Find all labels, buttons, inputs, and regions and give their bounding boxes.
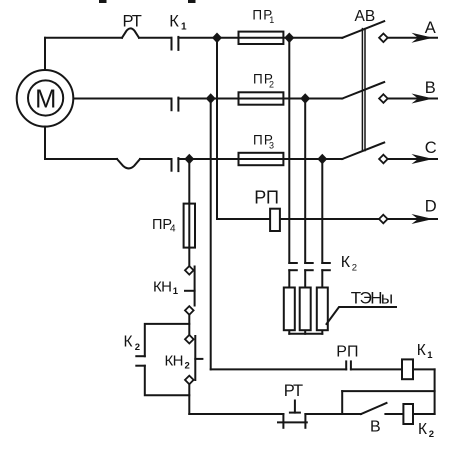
wire heater line3 lower lead <box>321 270 323 287</box>
push button KN1 <box>185 267 195 306</box>
junction phase3 net2 <box>317 154 327 165</box>
switch V blade <box>361 403 387 414</box>
wire D row to relay coil RP <box>217 218 270 220</box>
contact K2 heater line2 <box>305 263 313 270</box>
wire output C <box>388 158 437 160</box>
wire output D <box>388 218 438 220</box>
wire net from phase1 junction down to D row <box>216 38 218 219</box>
svg-text:2: 2 <box>185 360 190 371</box>
svg-text:КН: КН <box>165 352 183 369</box>
svg-text:К: К <box>169 12 179 30</box>
svg-text:КН: КН <box>153 279 171 296</box>
wire ladder line down from PR4 <box>188 159 190 204</box>
heating element TEN1 <box>284 288 295 331</box>
wire phase3 to K1 contact <box>140 158 172 160</box>
svg-text:1: 1 <box>427 350 433 361</box>
thermal contact RT <box>278 401 307 428</box>
wire right rail down <box>434 369 436 414</box>
wire K2 holding branch bottom <box>145 366 190 396</box>
svg-text:С: С <box>425 139 437 157</box>
svg-text:D: D <box>425 198 437 216</box>
wire net from phase2 junction down to RP row <box>210 99 212 370</box>
breaker AB blade phase3 <box>342 143 384 160</box>
wire heater line 2 down from phase2 <box>304 99 306 264</box>
junction phase2 net1 <box>206 93 216 104</box>
arrowhead C <box>412 154 434 164</box>
wire phase1 to RT heater <box>45 37 122 39</box>
page artifact top left <box>99 0 107 3</box>
svg-text:А: А <box>425 19 436 37</box>
svg-text:1: 1 <box>181 21 187 32</box>
svg-text:В: В <box>425 79 436 97</box>
wire RP contact to coil K1 <box>351 368 435 370</box>
svg-text:К: К <box>418 421 427 438</box>
junction phase1 net2 <box>284 33 294 44</box>
wire heater line 3 down from phase3 <box>321 159 323 263</box>
wire phase3 through fuse to breaker AB <box>239 158 343 160</box>
svg-text:К: К <box>124 334 133 351</box>
wire heater line2 lower lead <box>304 270 306 287</box>
wire switch V to coil K2 <box>385 413 403 415</box>
breaker AB blade phase2 <box>342 82 384 99</box>
arrowhead D <box>412 214 434 224</box>
thermal relay heater RT (phase 1 hump) <box>122 28 139 37</box>
svg-text:РТ: РТ <box>123 12 142 30</box>
wire output A <box>388 37 437 39</box>
svg-text:РТ: РТ <box>284 382 303 400</box>
svg-text:1: 1 <box>269 15 274 25</box>
wire D row relay to terminal <box>280 218 379 220</box>
fuse PR1 <box>239 32 284 44</box>
wire KN1 to KN2 <box>188 315 190 336</box>
svg-text:АВ: АВ <box>355 8 376 25</box>
wire phase1 contact to fuse PR1 <box>178 37 238 39</box>
svg-text:ТЭНы: ТЭНы <box>351 288 393 307</box>
wire phase1 through fuse to breaker AB <box>239 37 343 39</box>
svg-text:К: К <box>417 342 426 359</box>
fuse PR4 <box>184 204 195 248</box>
relay coil RP <box>270 209 280 231</box>
svg-text:РП: РП <box>254 187 278 207</box>
svg-text:РП: РП <box>336 344 358 361</box>
svg-text:1: 1 <box>173 286 179 297</box>
terminal KN2 bottom <box>185 376 194 385</box>
wire phase2 contact to fuse PR2 <box>178 98 238 100</box>
svg-text:К: К <box>341 254 351 271</box>
wire bypass branch <box>342 391 434 414</box>
arrowhead A <box>412 33 434 43</box>
contact RP <box>346 361 351 369</box>
contact K2 holding <box>136 356 145 366</box>
terminal A <box>379 34 388 43</box>
svg-text:3: 3 <box>269 141 274 151</box>
contact K2 heater line1 <box>289 263 297 270</box>
contact K1 phase3 <box>172 158 179 171</box>
wire phase3 to RT heater <box>45 158 117 160</box>
svg-text:В: В <box>370 419 381 436</box>
push button KN2 <box>195 336 202 380</box>
svg-text:2: 2 <box>135 342 140 353</box>
terminal D <box>379 215 388 224</box>
junction phase2 net2 <box>300 93 310 104</box>
wire RT contact to switch V <box>305 413 361 415</box>
wire phase2 through fuse to breaker AB <box>239 98 343 100</box>
terminal C <box>379 155 388 164</box>
page artifact top right <box>188 0 196 3</box>
wire PR4 to button KN1 <box>188 248 190 267</box>
junction phase1 net1 <box>212 33 222 44</box>
wire phase2 motor to K1 contact <box>74 98 172 100</box>
breaker AB blade phase1 <box>342 21 384 38</box>
svg-text:М: М <box>35 85 56 113</box>
wire phase3 motor riser <box>44 127 46 159</box>
thermal relay heater RT (phase 3 dip) <box>117 159 140 168</box>
heating element TEN2 <box>300 288 311 331</box>
contactor coil K1 <box>402 359 413 379</box>
wire PR4 through <box>188 204 190 248</box>
wire TEN common bottom bar <box>289 331 322 334</box>
wire heater line 1 down from phase1 <box>288 38 290 263</box>
wire phase3 contact to fuse PR3 <box>178 158 238 160</box>
motor M1 <box>17 70 74 127</box>
svg-text:2: 2 <box>269 79 274 89</box>
terminal KN2 top <box>185 335 194 344</box>
wire RP row to RP contact <box>211 368 347 370</box>
wire K2 holding branch top <box>145 324 190 356</box>
terminal KN1 top <box>185 266 194 275</box>
junction phase3 net1 <box>184 154 194 165</box>
wire heater line1 lower lead <box>288 270 290 287</box>
svg-text:2: 2 <box>429 429 434 440</box>
breaker AB tie bar <box>362 29 365 151</box>
wire output B <box>388 98 437 100</box>
contact K1 phase2 <box>172 98 179 111</box>
contact K2 heater line3 <box>322 263 330 270</box>
wire phase1 to K1 contact <box>139 37 172 39</box>
svg-text:4: 4 <box>170 224 176 235</box>
terminal B <box>379 94 388 103</box>
fuse PR3 <box>239 153 284 165</box>
wire bottom row to RT contact <box>189 413 283 415</box>
arrowhead B <box>412 94 434 104</box>
terminal KN1 bottom <box>185 306 194 315</box>
contactor coil K2 <box>403 404 413 424</box>
svg-text:2: 2 <box>352 262 357 273</box>
wire coil K2 to right rail <box>413 413 435 415</box>
callout line TENy <box>327 307 397 324</box>
fuse PR2 <box>239 92 284 104</box>
wire phase1 motor riser <box>44 38 46 70</box>
heating element TEN3 <box>317 288 328 331</box>
wire KN2 to bottom row <box>188 384 190 414</box>
contact K1 phase1 <box>172 37 179 50</box>
